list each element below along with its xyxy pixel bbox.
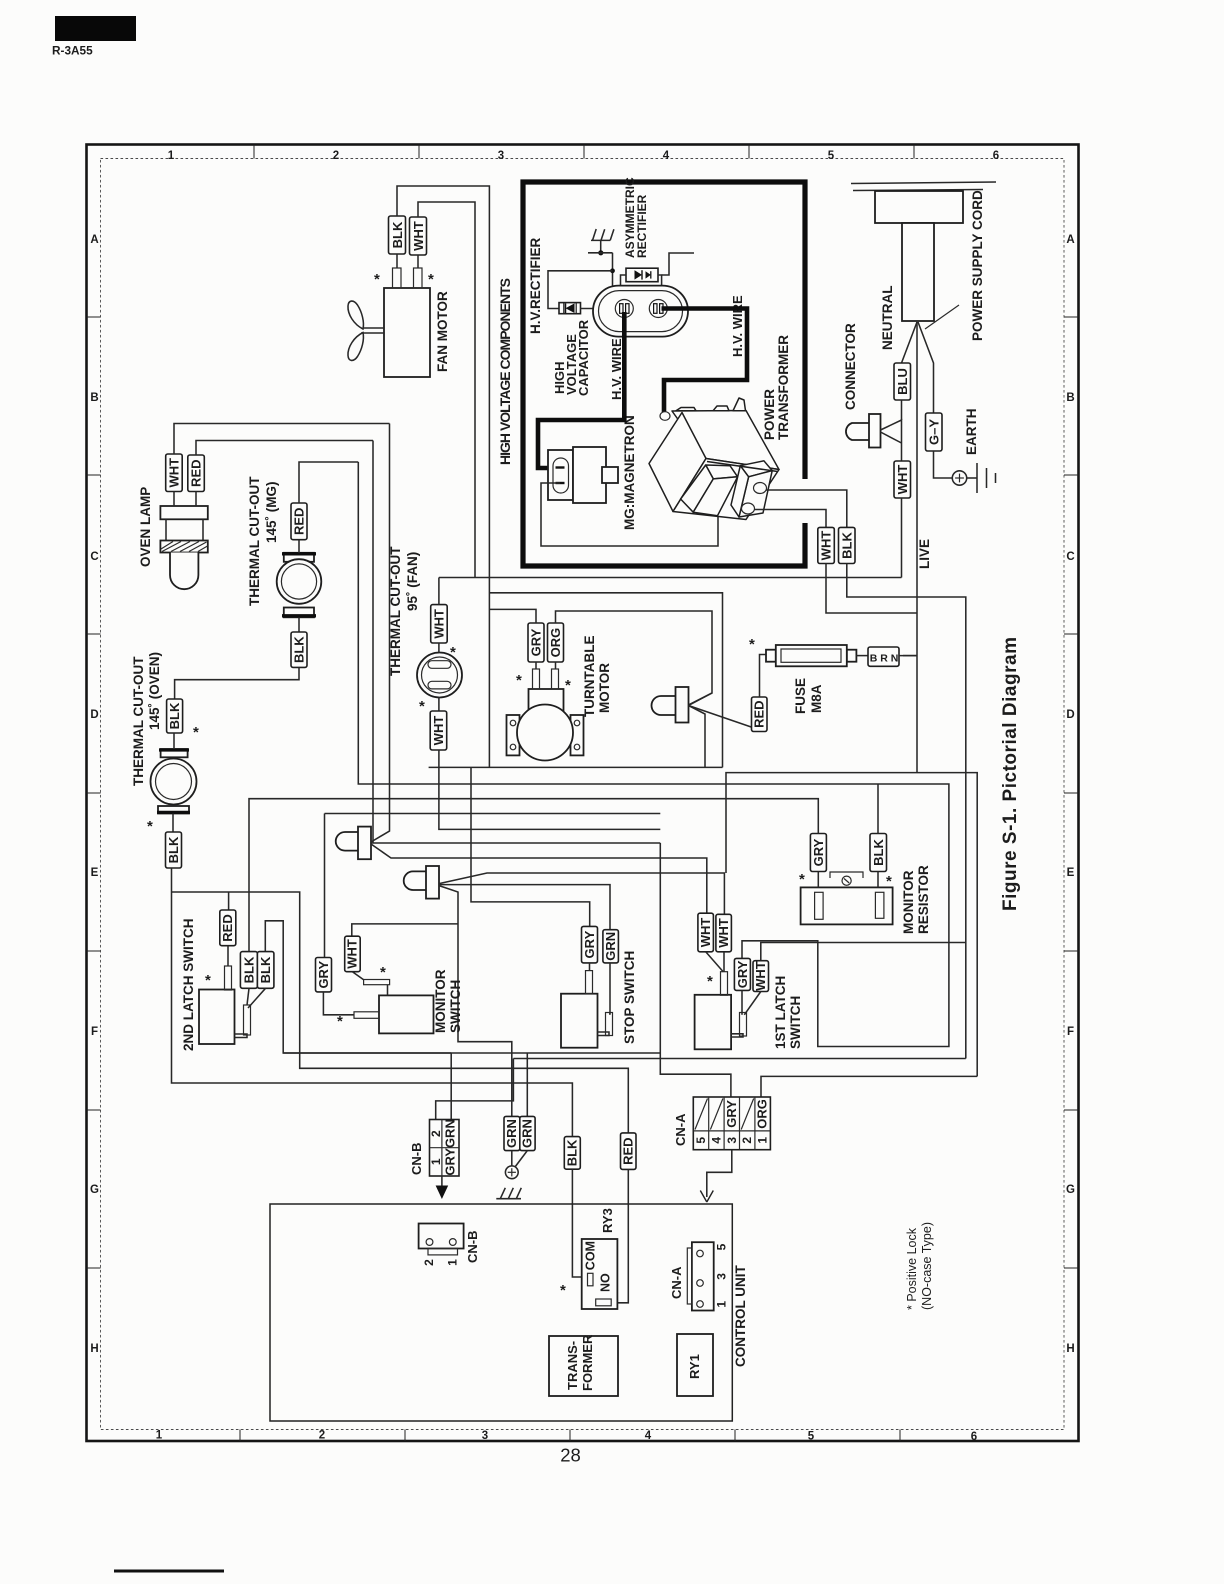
svg-text:BLK: BLK (242, 956, 257, 983)
svg-text:3: 3 (498, 150, 504, 162)
svg-text:TURNTABLE: TURNTABLE (582, 636, 597, 718)
wire 2nd latch RED drop (228, 892, 230, 910)
svg-text:MONITOR: MONITOR (901, 870, 916, 934)
2nd latch switch plunger (225, 966, 232, 990)
svg-text:Figure S-1. Pictorial Diagram: Figure S-1. Pictorial Diagram (1000, 637, 1021, 911)
relay RY1 (677, 1334, 713, 1396)
wire 2nd latch RED feed (172, 892, 629, 1133)
svg-text:GRN: GRN (443, 1119, 458, 1148)
wire CN-B to control unit with solid arrow (441, 1176, 443, 1186)
border frame outer (87, 145, 1079, 1442)
svg-text:POWER: POWER (762, 389, 777, 440)
tag BLK (oven cutout upper) (167, 699, 183, 733)
tag BLK (oven cutout lower) (166, 832, 182, 868)
wire CN-A col3 to control unit with arrow (707, 1150, 732, 1197)
wire asym rectifier right loop (658, 275, 662, 296)
svg-text:28: 28 (560, 1445, 581, 1466)
positive lock connector (turntable circuit) (652, 687, 689, 723)
svg-text:CONTROL UNIT: CONTROL UNIT (733, 1265, 748, 1367)
wire bus y1053 (283, 1052, 660, 1054)
wire 2nd latch BLK leads to terminal (247, 988, 249, 1005)
wire oven lamp RED bus (196, 441, 373, 456)
wire right stub into loop (662, 253, 694, 275)
wire 1st latch WHT3 link (761, 943, 966, 961)
svg-text:STOP SWITCH: STOP SWITCH (622, 951, 637, 1044)
bottom-left rule (114, 1570, 224, 1573)
svg-text:5: 5 (808, 1431, 815, 1443)
svg-text:C: C (1066, 551, 1074, 563)
wire monitor resistor BLK feed (877, 784, 879, 834)
svg-text:BLK: BLK (292, 636, 307, 663)
capacitor left terminal (615, 300, 633, 318)
svg-text:RED: RED (621, 1137, 636, 1164)
svg-text:2ND LATCH SWITCH: 2ND LATCH SWITCH (181, 919, 196, 1052)
svg-text:WHT: WHT (431, 716, 446, 746)
wire tcutout RED drop joins connector mid (372, 441, 374, 844)
svg-text:A: A (1066, 234, 1074, 246)
tag BLK (transformer out) (839, 527, 856, 563)
wire 1st latch GRY lead (741, 990, 743, 1014)
tag GRY (1st latch) (734, 958, 750, 990)
frame zone letters left (90, 234, 99, 1355)
svg-text:1: 1 (168, 150, 175, 162)
svg-text:2: 2 (319, 1430, 325, 1442)
tag WHT (fan cutout upper) (431, 605, 448, 643)
svg-text:BLK: BLK (839, 532, 854, 559)
svg-text:CONNECTOR: CONNECTOR (843, 323, 858, 410)
wire CN-B GRN col feed (436, 1059, 514, 1123)
positive lock connector (door sensing) (336, 827, 371, 860)
high voltage components enclosure box (523, 182, 805, 566)
earth screw symbol (505, 1166, 518, 1179)
monitor switch top bar (364, 980, 390, 985)
tag G-Y (926, 413, 943, 451)
svg-text:2: 2 (740, 1137, 754, 1144)
wire oven lamp WHT lead (173, 492, 175, 507)
CN-B header inside control unit (419, 1224, 464, 1255)
svg-text:GRY: GRY (811, 838, 826, 866)
high voltage capacitor body (593, 286, 688, 337)
svg-text:WHT: WHT (411, 221, 426, 251)
wire monitor switch GRY lead (323, 992, 354, 1015)
CN-A wiring connector grid (693, 1097, 770, 1150)
svg-text:THERMAL CUT-OUT: THERMAL CUT-OUT (131, 656, 146, 786)
svg-text:SWITCH: SWITCH (448, 980, 463, 1033)
svg-text:H.V. WIRE: H.V. WIRE (609, 338, 624, 400)
svg-text:TRANSFORMER: TRANSFORMER (776, 335, 791, 440)
svg-text:5: 5 (714, 1243, 728, 1250)
svg-text:*: * (147, 818, 153, 835)
svg-text:F: F (1067, 1026, 1074, 1038)
tag WHT (transformer out) (818, 527, 835, 563)
CN-B wiring connector grid (430, 1120, 460, 1177)
svg-text:*: * (193, 724, 199, 741)
svg-text:6: 6 (993, 150, 999, 162)
svg-text:BLK: BLK (565, 1139, 580, 1166)
thick H.V. wire capacitor to magnetron (538, 312, 624, 468)
wire stop switch GRY feed (471, 767, 590, 926)
wire turntable loop top and right (489, 593, 722, 768)
wire MG cutout lower lead (298, 617, 300, 632)
tag WHT (1st latch) (753, 961, 769, 992)
tag BLK (monitor resistor) (870, 834, 887, 872)
header black bar (55, 16, 136, 41)
2nd latch switch bottom stub (235, 1034, 248, 1038)
RY3 NO terminal (596, 1299, 612, 1306)
wire turntable GRY feed (489, 609, 536, 623)
svg-text:NEUTRAL: NEUTRAL (880, 286, 895, 351)
wire monitor resistor GRY lead (817, 872, 819, 888)
wire turntable GRY lead (535, 662, 537, 669)
oven lamp assembly (160, 506, 207, 589)
svg-text:5: 5 (828, 150, 835, 162)
fan motor terminals (393, 268, 402, 288)
tag GRY (monitor resistor) (810, 834, 826, 872)
wire monitor resistor BLK lead (877, 872, 879, 888)
svg-text:145˚ (OVEN): 145˚ (OVEN) (147, 652, 162, 730)
svg-text:RED: RED (752, 700, 767, 727)
fan motor propeller (348, 301, 384, 360)
svg-text:*: * (380, 964, 386, 981)
RY3 COM terminal (588, 1273, 594, 1286)
svg-text:M8A: M8A (809, 684, 824, 713)
svg-text:WHT: WHT (167, 458, 182, 488)
stop switch body (561, 994, 598, 1048)
monitor resistor bracket (830, 872, 863, 878)
wire MG cutout BLK to oven cutout (175, 667, 299, 699)
svg-text:BLU: BLU (895, 368, 910, 395)
svg-text:1: 1 (756, 1137, 770, 1144)
wire cord to G-Y (918, 322, 934, 413)
wire fan WHT to live bus (418, 202, 475, 578)
capacitor right terminal (649, 300, 667, 318)
tag WHT (monitor switch) (345, 936, 361, 972)
tag GRN GRN (earth pair) (504, 1116, 520, 1150)
svg-text:GRN: GRN (603, 932, 618, 961)
relay RY3 (582, 1239, 618, 1309)
svg-text:WHT: WHT (819, 531, 834, 561)
wire asym rectifier left loop (621, 275, 627, 295)
magnetron body (548, 447, 618, 503)
svg-text:C: C (90, 551, 98, 563)
tag WHT (connector to live bus) (894, 461, 911, 498)
svg-text:6: 6 (971, 1431, 977, 1443)
wire GRN2 feed (526, 1053, 528, 1116)
1st latch switch body (695, 995, 732, 1050)
wire oven lamp RED lead (195, 492, 197, 507)
svg-text:WHT: WHT (345, 939, 360, 969)
wire CN-A ORG feed (761, 1076, 977, 1097)
svg-text:4: 4 (663, 150, 670, 162)
svg-text:H.V.RECTIFIER: H.V.RECTIFIER (528, 237, 543, 334)
wires fanning from turntable connector (689, 693, 713, 706)
svg-text:BLK: BLK (871, 839, 886, 866)
svg-text:FORMER: FORMER (580, 1334, 595, 1391)
svg-text:WHT: WHT (753, 961, 768, 991)
wire antenna stub left (588, 252, 613, 254)
stop switch bottom stub (598, 1032, 610, 1036)
svg-text:D: D (90, 709, 98, 721)
wire BLU to connector (901, 400, 903, 420)
wire cord to BLU (902, 322, 918, 363)
svg-text:GRN: GRN (504, 1119, 519, 1148)
svg-text:95˚ (FAN): 95˚ (FAN) (405, 552, 420, 611)
wire oven cutout top lead (173, 733, 175, 749)
transformer secondary terminal upper (754, 483, 767, 494)
thick H.V. wire capacitor to transformer (662, 309, 748, 413)
svg-text:*: * (205, 972, 211, 989)
wire 2nd latch RED lead (227, 946, 229, 966)
svg-text:EARTH: EARTH (964, 409, 979, 456)
wire loop bottom y767 (429, 766, 723, 768)
svg-text:E: E (91, 867, 99, 879)
wire 1st latch WHT lead diagonal (744, 992, 761, 1015)
svg-text:G: G (90, 1184, 99, 1196)
node: antenna junction dot (598, 250, 603, 255)
wire stop switch GRN lead (609, 963, 610, 1014)
svg-text:R-3A55: R-3A55 (52, 44, 93, 58)
svg-text:5: 5 (694, 1137, 708, 1144)
wire fan BLK lead (396, 254, 398, 268)
svg-text:F: F (91, 1026, 98, 1038)
frame zone letters right (1066, 234, 1075, 1355)
svg-text:2: 2 (333, 150, 339, 162)
wire RED to RY3 NO (611, 1169, 628, 1302)
monitor switch top bar drop (387, 985, 389, 996)
svg-text:*: * (707, 973, 713, 990)
svg-text:WHT: WHT (432, 609, 447, 639)
wire fan cutout lower to bus (439, 750, 660, 829)
svg-text:ORG: ORG (548, 628, 563, 658)
tag BLU (894, 363, 911, 400)
svg-text:*: * (799, 871, 805, 888)
svg-text:RED: RED (220, 914, 235, 941)
svg-text:GRY: GRY (529, 628, 544, 656)
svg-text:HIGH VOLTAGE COMPONENTS: HIGH VOLTAGE COMPONENTS (497, 278, 513, 465)
connector plug symbol (846, 414, 902, 461)
svg-text:CAPACITOR: CAPACITOR (576, 319, 591, 396)
svg-text:FAN MOTOR: FAN MOTOR (435, 291, 450, 372)
wire fan cutout top to live bus (438, 578, 440, 605)
turntable motor (507, 689, 584, 761)
svg-text:H: H (1066, 1343, 1074, 1355)
svg-text:2: 2 (422, 1259, 436, 1266)
tag RED (MG cutout) (291, 503, 307, 540)
earth ground symbol (967, 463, 996, 493)
svg-text:A: A (90, 234, 98, 246)
svg-text:CN-B: CN-B (465, 1231, 480, 1264)
tag RED (control unit feed) (621, 1133, 637, 1170)
svg-text:GRY: GRY (735, 960, 750, 988)
svg-text:B: B (90, 392, 98, 404)
svg-text:CN-A: CN-A (669, 1266, 684, 1299)
wire dashdot trunk x660 (660, 843, 731, 1097)
tag BLK (fan) (389, 216, 406, 254)
wire CN-B GRY col feed (450, 1053, 452, 1123)
wire oven cutout bottom lead (172, 814, 174, 833)
svg-text:GRY: GRY (582, 930, 597, 958)
1st latch switch side terminal (740, 1013, 747, 1037)
wire monitor resistor GRY feed from 2nd latch (249, 799, 818, 952)
svg-text:*: * (428, 271, 434, 288)
svg-text:GRY: GRY (443, 1148, 458, 1176)
svg-text:WHT: WHT (698, 918, 713, 948)
stop switch side terminal (606, 1013, 613, 1036)
wire MG cutout RED lead (298, 540, 300, 553)
svg-text:*: * (749, 636, 755, 653)
svg-text:(NO-case Type): (NO-case Type) (920, 1222, 934, 1310)
power supply cord top rails (851, 182, 996, 184)
svg-text:BLK: BLK (167, 702, 182, 729)
svg-text:1: 1 (429, 1158, 443, 1165)
svg-text:RED: RED (189, 459, 204, 486)
asymmetric rectifier component (626, 268, 658, 282)
svg-text:COM: COM (584, 1241, 598, 1270)
svg-text:*: * (565, 677, 571, 694)
wire H.V. rectifier to capacitor left terminal (581, 308, 617, 310)
1st latch switch bottom stub (731, 1034, 743, 1037)
wire turntable ORG feed (556, 611, 713, 705)
svg-text:CN-A: CN-A (673, 1113, 688, 1146)
wire monitor switch WHT lead (352, 972, 364, 980)
tag WHT WHT (1st latch) (698, 913, 714, 952)
svg-text:B: B (1066, 392, 1074, 404)
tag WHT (fan) (410, 217, 427, 255)
monitor switch body (379, 995, 434, 1033)
svg-text:* Positive Lock: * Positive Lock (905, 1227, 919, 1310)
power transformer isometric body (649, 398, 779, 520)
svg-text:B R N: B R N (870, 653, 899, 665)
svg-text:*: * (560, 1282, 566, 1299)
fuse M8A (766, 645, 856, 666)
turntable motor pin 2 (552, 669, 559, 689)
svg-text:2: 2 (429, 1130, 443, 1137)
svg-text:GRY: GRY (724, 1100, 739, 1128)
wire 1st latch WHT1 lead (706, 952, 724, 972)
frame zone numbers bottom (156, 1430, 977, 1444)
svg-text:D: D (1066, 709, 1074, 721)
1st latch switch plunger (721, 972, 728, 996)
svg-text:ORG: ORG (755, 1099, 770, 1129)
pointer line to cord (925, 305, 959, 329)
border frame inner (101, 159, 1065, 1430)
tag BLK (MG cutout) (291, 632, 307, 667)
wire bus y772 (726, 773, 977, 1077)
control unit outline (270, 1204, 732, 1421)
wire bus y1058 (513, 1058, 965, 1060)
monitor resistor (801, 887, 893, 924)
tag RED (fuse feed) (752, 697, 768, 732)
svg-text:SWITCH: SWITCH (788, 996, 803, 1049)
svg-text:RECTIFIER: RECTIFIER (635, 194, 649, 258)
svg-text:POWER SUPPLY CORD: POWER SUPPLY CORD (970, 190, 985, 341)
earth terminal circle (952, 471, 966, 485)
positive lock connector (stop circuit) (404, 866, 439, 899)
stop switch plunger (586, 971, 593, 994)
tag BLK BLK (2nd latch) (240, 952, 257, 989)
thermal cut-out 145 (MG) (277, 553, 322, 618)
svg-text:MG:MAGNETRON: MG:MAGNETRON (622, 415, 637, 530)
svg-text:3: 3 (714, 1273, 728, 1280)
wire fuse to BRN (856, 655, 868, 657)
wire transformer to BLK tag (766, 490, 847, 527)
wire bus y784 chain (MG red to monitor) (358, 462, 949, 1047)
wire 2nd latch BLK2 chain (265, 921, 451, 1053)
svg-text:LIVE: LIVE (917, 539, 932, 569)
wire fan WHT lead (417, 255, 419, 268)
wire magnetron lower terminal loop to transformer (541, 483, 718, 546)
CN-A grid numbers (694, 1137, 770, 1144)
wire turntable ORG lead (555, 662, 557, 669)
svg-text:1ST LATCH: 1ST LATCH (773, 976, 788, 1049)
svg-text:G: G (1066, 1184, 1075, 1196)
wire H.V. rectifier branch (548, 271, 613, 309)
svg-text:*: * (419, 698, 425, 715)
svg-text:G–Y: G–Y (927, 419, 942, 445)
svg-text:BLK: BLK (390, 221, 405, 248)
svg-text:MOTOR: MOTOR (597, 663, 612, 713)
wire 1st latch WHT2 lead (723, 952, 725, 972)
wire GRN pair to earth screw (511, 1151, 513, 1166)
svg-text:THERMAL CUT-OUT: THERMAL CUT-OUT (247, 476, 262, 606)
turntable motor pin 1 (533, 669, 540, 689)
thermal cut-out 95 (FAN) (417, 653, 462, 698)
power supply cord plug body (875, 191, 963, 223)
wire G-Y to earth (934, 451, 953, 478)
tag GRN (stop switch) (603, 930, 619, 963)
CN-B grid numbers and colors (429, 1130, 443, 1165)
wire BRN to live line (899, 655, 917, 657)
wire WHT tag down to live line (826, 564, 917, 614)
svg-text:H: H (90, 1343, 98, 1355)
tag ORG (turntable) (548, 623, 564, 662)
wire monitor switch WHT link (352, 924, 458, 936)
svg-text:OVEN LAMP: OVEN LAMP (138, 487, 153, 567)
tag WHT (fan cutout lower) (430, 711, 447, 750)
wire RED to fuse (760, 655, 767, 698)
transformer top terminal (660, 412, 670, 421)
magnetron antenna symbol (591, 229, 614, 252)
svg-text:1: 1 (446, 1259, 460, 1266)
wire live bus y577 (439, 577, 902, 579)
wire cord live line (916, 322, 918, 773)
wire fan cutout top lead (438, 643, 440, 653)
wire MG cutout RED to bus (299, 462, 358, 503)
tag GRY (stop switch) (582, 926, 598, 963)
frame zone numbers top (168, 150, 999, 162)
wire antenna to asym loop (612, 253, 614, 290)
svg-text:*: * (516, 672, 522, 689)
monitor switch left terminal (354, 1012, 379, 1019)
wire fan BLK to long bus (397, 186, 489, 767)
2nd latch switch body (199, 990, 235, 1045)
svg-text:E: E (1067, 867, 1075, 879)
transformer block (low voltage) (549, 1336, 618, 1396)
node: dot at 612.5,271 (610, 268, 615, 273)
svg-text:NO: NO (599, 1273, 613, 1292)
tag RED (oven lamp) (188, 455, 205, 492)
svg-text:4: 4 (645, 1430, 652, 1442)
svg-text:3: 3 (482, 1430, 488, 1442)
tag RED (2nd latch) (220, 910, 236, 946)
tag BRN (868, 647, 899, 666)
power supply cord stem (902, 223, 934, 321)
svg-text:*: * (450, 644, 456, 661)
wires fanning from door connector (371, 424, 390, 843)
wire BLK tag down to right bus (847, 564, 966, 1059)
wires fanning from stop connector (439, 873, 724, 914)
svg-text:GRN: GRN (520, 1119, 535, 1148)
